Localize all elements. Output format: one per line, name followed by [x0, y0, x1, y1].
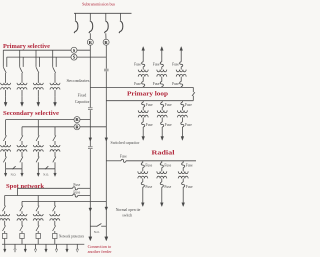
flow arrow 2 on feeder 2 [105, 207, 108, 210]
label: Fuse (loop upper tap 3 secondary) [172, 62, 179, 66]
loop end vertical with open switch [192, 87, 195, 100]
label: Fuse (loop lower tap 3 primary) [185, 103, 192, 107]
label: Fuse (radial tap 2 secondary) [164, 185, 171, 189]
secondary selective load arrow 1 [4, 169, 7, 177]
svg-text:switch: switch [122, 213, 132, 217]
breaker R on bus 2 [74, 124, 80, 130]
label: Secondary selective (red) [3, 110, 59, 117]
wire: drop 3 to recloser R2 [105, 33, 107, 39]
end arrow feeder 2 [105, 237, 108, 241]
svg-text:Fuse: Fuse [164, 163, 171, 167]
svg-text:S: S [73, 48, 76, 53]
label: Fixed Capacitor [75, 94, 90, 105]
label: Fuse (radial tap 3 secondary) [186, 185, 193, 189]
primary selective unit 3: dual-feed switches, transformer, load arrow [33, 50, 43, 106]
svg-text:Radial: Radial [152, 149, 175, 156]
label: Network protectors [59, 235, 85, 239]
wire: drop 2 to recloser R1 [89, 33, 91, 39]
feeder breaker 4 on bus drop [119, 13, 123, 33]
secondary selective unit 2: switch, transformer, breaker [17, 127, 27, 169]
feeder 2 vertical (right main feeder) [105, 45, 107, 237]
feeder breaker 1 on bus drop [74, 13, 78, 33]
loop upper tap 1: load arrow, fuse, transformer, fuse [138, 47, 148, 88]
label: Fuse (radial tap 2 primary) [164, 163, 171, 167]
svg-text:N.O.: N.O. [43, 172, 49, 176]
svg-text:Fuse: Fuse [172, 82, 179, 86]
label: Fuse (loop lower tap 1 secondary) [146, 123, 153, 127]
flow arrow 2 on feeder 1 [89, 208, 92, 211]
switched capacitor on feeder 1 [88, 146, 93, 149]
spot network feed line 1 with fuse (from feeder 1) [17, 187, 90, 196]
secondary tie bus pair 1 [6, 168, 22, 170]
label: Radial (red) [152, 149, 175, 156]
network bus load arrow 6 [55, 244, 58, 252]
svg-text:Fuse: Fuse [73, 190, 80, 194]
feeder 1 vertical (left main feeder) [89, 45, 91, 237]
secondary tie bus pair 2 [38, 168, 55, 170]
secondary selective load arrow 4 [54, 169, 57, 177]
secondary selective load arrow 2 [21, 169, 24, 177]
svg-text:Fuse: Fuse [73, 183, 80, 187]
secondary selective unit 4: switch, transformer, breaker [50, 127, 60, 169]
tie switch N.O. pair 2 [45, 166, 48, 169]
label: Fuse (loop upper tap 2 primary) [153, 82, 160, 86]
spot network unit 1: switch, transformer, network protector [0, 196, 10, 245]
label: Fuse (loop upper tap 1 primary) [134, 82, 141, 86]
spot network feed line 2 with fuse (from feeder 1) [5, 194, 91, 197]
fixed capacitor C-fixed on feeder 1 [88, 107, 93, 110]
flow arrow on feeder 2 [105, 138, 108, 141]
spot network secondary bus [2, 243, 84, 245]
label: N.O. pair 1 [11, 172, 17, 176]
network bus load arrow 1 [4, 244, 7, 252]
label: Fuse (radial tap 1 secondary) [145, 185, 152, 189]
primary selective unit 4: dual-feed switches, transformer, load arrow [50, 50, 60, 106]
loop lower tap 1: fuse, transformer, fuse, load arrow [138, 101, 148, 141]
radial tap 3: fuse, transformer, fuse, load arrow [178, 161, 188, 207]
primary selective unit 2: dual-feed switches, transformer, load arrow [17, 50, 27, 106]
primary selective line 2 with switch S2 [7, 56, 107, 58]
svg-text:S: S [73, 55, 76, 60]
loop upper tap 3: load arrow, fuse, transformer, fuse [176, 47, 186, 88]
svg-text:Fuse: Fuse [172, 62, 179, 66]
network bus load arrow 2 [14, 244, 17, 252]
svg-text:Normal open tie: Normal open tie [116, 208, 141, 212]
flow arrow on feeder 1 [89, 138, 92, 141]
svg-text:Fixed: Fixed [78, 94, 87, 98]
label: Fuse (spot feed 1) [73, 183, 80, 187]
secondary selective bus 2 with breaker R [22, 126, 106, 128]
primary selective unit 1: dual-feed switches, transformer, load arrow [1, 50, 11, 106]
svg-text:Fuse: Fuse [145, 185, 152, 189]
label: Primary selective (red) [3, 43, 50, 50]
label: Fuse (loop lower tap 1 primary) [146, 103, 153, 107]
label: Fuse (loop upper tap 1 secondary) [134, 62, 141, 66]
loop lower tap 2: fuse, transformer, fuse, load arrow [157, 101, 167, 141]
svg-text:Secondaries: Secondaries [67, 79, 91, 83]
svg-text:Fuse: Fuse [153, 62, 160, 66]
label: Primary loop (red) [127, 90, 168, 97]
primary selective line 1 with switch S1 [3, 49, 90, 51]
svg-text:Fuse: Fuse [146, 103, 153, 107]
spot network feed line 3 (from feeder 2) [22, 200, 106, 202]
label: Fuse (loop lower tap 2 primary) [165, 103, 172, 107]
loop upper tap 2: load arrow, fuse, transformer, fuse [157, 47, 167, 88]
svg-text:Fuse: Fuse [185, 123, 192, 127]
svg-text:Fuse: Fuse [186, 185, 193, 189]
svg-text:Fuse: Fuse [134, 82, 141, 86]
svg-text:Switched capacitor: Switched capacitor [111, 141, 141, 145]
svg-text:Secondary selective: Secondary selective [3, 110, 59, 117]
recloser R2 [103, 39, 109, 45]
label: Fuse (loop upper tap 2 secondary) [153, 62, 160, 66]
secondary selective unit 1: switch, transformer, breaker [1, 120, 11, 169]
svg-text:Fuse: Fuse [146, 123, 153, 127]
network bus load arrow 3 [24, 244, 27, 252]
switch S2 [71, 54, 77, 60]
network bus load arrow 4 [34, 244, 37, 252]
secondary selective bus 1 with breaker R [6, 119, 91, 121]
label: Fuse (spot feed 2) [73, 190, 80, 194]
secondary selective load arrow 3 [37, 169, 40, 177]
radial lateral line with fuse [106, 159, 196, 162]
subtransmission bus [74, 12, 132, 14]
svg-text:Capacitor: Capacitor [75, 100, 90, 104]
svg-text:Fuse: Fuse [153, 82, 160, 86]
svg-text:Subtransmission bus: Subtransmission bus [82, 2, 115, 7]
spot network unit 3: switch, transformer, network protector [33, 196, 43, 245]
feeder breaker 2 on bus drop [89, 13, 93, 33]
network bus load arrow 8 [76, 244, 79, 252]
label: N.O. pair 2 [43, 172, 49, 176]
network bus load arrow 5 [45, 244, 48, 252]
svg-text:another feeder: another feeder [88, 249, 113, 254]
label: Normal open tie switch [116, 208, 141, 217]
svg-text:Spot network: Spot network [6, 183, 44, 190]
primary loop upper line [90, 86, 193, 88]
normally-open tie between feeders [90, 224, 106, 227]
svg-text:Fuse: Fuse [185, 103, 192, 107]
svg-text:N.O.: N.O. [11, 172, 17, 176]
loop lower tap 3: fuse, transformer, fuse, load arrow [177, 101, 187, 141]
svg-text:Fuse: Fuse [134, 62, 141, 66]
label: Subtransmission bus (red) [82, 2, 115, 7]
label: Fuse (loop lower tap 2 secondary) [165, 123, 172, 127]
radial tap 2: fuse, transformer, fuse, load arrow [157, 161, 167, 207]
svg-text:Network protectors: Network protectors [59, 235, 85, 239]
tie switch N.O. pair 1 [12, 166, 15, 169]
end arrow feeder 1 [89, 237, 92, 241]
secondary selective unit 3: switch, transformer, breaker [33, 120, 43, 169]
svg-text:Fuse: Fuse [165, 123, 172, 127]
feeder breaker 3 on bus drop [104, 13, 108, 33]
svg-text:Fuse: Fuse [145, 163, 152, 167]
label: N.O. (tie) [94, 230, 100, 234]
spot network unit 4: switch, transformer, network protector [50, 201, 60, 244]
svg-text:Fuse: Fuse [186, 163, 193, 167]
primary loop lower line [106, 100, 193, 102]
capacitor on feeder 2 [104, 69, 109, 72]
label: Fuse (radial lateral) [120, 155, 127, 159]
label: Switched capacitor [111, 141, 141, 145]
recloser R1 [87, 39, 93, 45]
label: Secondaries [67, 79, 91, 83]
label: Fuse (loop lower tap 3 secondary) [185, 123, 192, 127]
switch S1 [71, 47, 77, 53]
network bus load arrow 7 [66, 244, 69, 252]
spot network unit 2: switch, transformer, network protector [17, 201, 27, 244]
label: Spot network (red) [6, 183, 44, 190]
svg-text:Primary loop: Primary loop [127, 90, 168, 97]
svg-text:N.O.: N.O. [94, 230, 100, 234]
label: Fuse (radial tap 3 primary) [186, 163, 193, 167]
svg-text:Primary selective: Primary selective [3, 43, 50, 50]
radial tap 1: fuse, transformer, fuse, load arrow [138, 161, 148, 207]
svg-text:Fuse: Fuse [165, 103, 172, 107]
svg-text:Fuse: Fuse [120, 155, 127, 159]
svg-text:Fuse: Fuse [164, 185, 171, 189]
label: Connection to another feeder (red) [88, 244, 113, 254]
breaker R on bus 1 [74, 117, 80, 123]
label: Fuse (radial tap 1 primary) [145, 163, 152, 167]
label: Fuse (loop upper tap 3 primary) [172, 82, 179, 86]
